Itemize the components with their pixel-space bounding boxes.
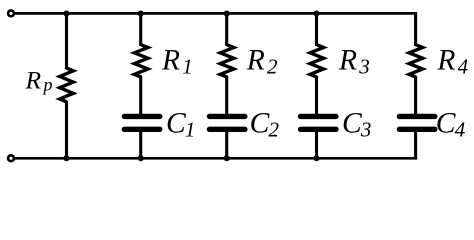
svg-text:C1: C1	[166, 108, 195, 142]
svg-text:C3: C3	[342, 108, 371, 142]
svg-text:R1: R1	[161, 45, 193, 79]
svg-text:C2: C2	[250, 108, 280, 142]
svg-text:R2: R2	[246, 45, 278, 79]
svg-text:C4: C4	[436, 108, 466, 142]
svg-text:Rp: Rp	[25, 66, 53, 95]
svg-text:R3: R3	[338, 45, 370, 79]
svg-text:R4: R4	[436, 45, 468, 79]
